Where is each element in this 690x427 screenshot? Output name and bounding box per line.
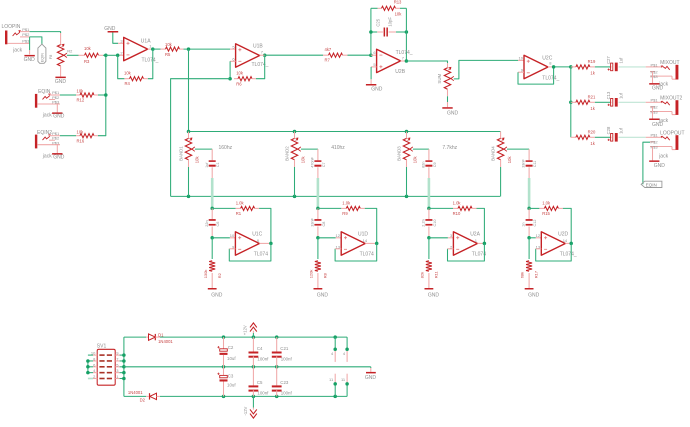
svg-text:GND: GND xyxy=(652,122,664,128)
svg-text:C13: C13 xyxy=(606,91,611,99)
svg-text:GND: GND xyxy=(53,114,65,120)
ground GND band1 gyrator xyxy=(208,288,223,298)
wire R1 to op-amp output xyxy=(259,208,271,243)
svg-text:TL074: TL074 xyxy=(254,252,268,258)
wire C27 to MIXOUT jack xyxy=(619,66,646,68)
resistor R3 10k xyxy=(79,46,104,64)
wire branch to R21 xyxy=(571,101,576,103)
wire MIXOUT P$2 to GND xyxy=(652,72,654,84)
svg-text:GND: GND xyxy=(317,292,329,298)
wire U2A feedback to pin - xyxy=(448,243,485,261)
op-amp U2D TL074_ xyxy=(536,232,577,258)
svg-text:R6: R6 xyxy=(236,81,242,86)
svg-text:D2: D2 xyxy=(140,397,146,402)
diode D1 1N4001 xyxy=(146,333,173,344)
wire R21 to C13 xyxy=(595,101,610,103)
wire node B down to R17 xyxy=(528,238,530,259)
capacitor C11 33nF series xyxy=(522,158,537,167)
svg-text:10: 10 xyxy=(519,55,524,60)
svg-text:14: 14 xyxy=(563,238,568,243)
wire node down to top band bus xyxy=(188,49,190,131)
power pin V- U1 pin11 xyxy=(329,374,335,397)
capacitor C4 100nf xyxy=(249,337,270,367)
wire MIXOUT2 P$2 to GND xyxy=(652,107,654,119)
svg-text:100nf: 100nf xyxy=(257,390,269,395)
op-amp U1C TL074 xyxy=(230,232,268,258)
svg-text:C2: C2 xyxy=(228,345,234,350)
svg-text:410hz: 410hz xyxy=(331,145,345,151)
capacitor C21 100nf xyxy=(272,337,293,367)
svg-text:BAND2: BAND2 xyxy=(285,146,290,161)
junction U1D output xyxy=(375,242,379,246)
junction node B band3 xyxy=(427,236,431,240)
svg-text:-12V: -12V xyxy=(243,406,248,415)
wire C9 down to gyrator node A xyxy=(428,167,430,178)
wire R20 to C28 xyxy=(595,136,610,138)
svg-text:130k: 130k xyxy=(203,270,208,279)
svg-text:LOOPOUT: LOOPOUT xyxy=(660,130,684,136)
ground GND under SUM pot xyxy=(442,107,458,116)
svg-text:GND: GND xyxy=(447,110,459,116)
wire LOOPOUT P$2 to EQIN flag xyxy=(643,142,650,184)
connector MIXOUT2 jack xyxy=(646,95,683,124)
wire U1A feedback loop xyxy=(118,55,125,78)
svg-text:4k7: 4k7 xyxy=(325,47,332,52)
potentiometer BAND4 10k xyxy=(491,132,512,168)
resistor R7 4k7 xyxy=(323,47,348,63)
junction U1C output xyxy=(269,242,273,246)
wire R12 to input node xyxy=(98,94,106,96)
supply +12V arrow xyxy=(242,323,256,337)
connector SV1 header xyxy=(91,344,120,386)
ground GND under EQIN2 jack xyxy=(52,153,65,160)
svg-text:jack: jack xyxy=(12,47,22,53)
svg-text:1.0k: 1.0k xyxy=(342,201,351,206)
junction SV1 right bus xyxy=(122,353,126,357)
power pin V+ U2 pin4 xyxy=(343,349,347,362)
wire C11 down to gyrator node A xyxy=(528,167,530,178)
svg-text:GND: GND xyxy=(428,292,440,298)
resistor R11 82k to ground xyxy=(420,261,439,288)
resistor R8 120k to ground xyxy=(309,261,328,288)
junction U1A feedback nodes xyxy=(116,54,120,58)
capacitor C23 100nf xyxy=(272,367,293,397)
junction node A band4 xyxy=(527,207,531,211)
svg-text:R4: R4 xyxy=(125,81,131,86)
wire R10 to op-amp output xyxy=(477,208,485,243)
svg-text:10k: 10k xyxy=(124,71,132,76)
svg-text:160hz: 160hz xyxy=(219,145,233,151)
svg-text:1N4001: 1N4001 xyxy=(128,390,143,395)
ground GND under pot R2 xyxy=(55,77,67,85)
connector LOOPOUT jack xyxy=(646,130,685,159)
wire BAND4 bottom to bus xyxy=(500,167,502,196)
svg-text:10k: 10k xyxy=(165,42,173,47)
svg-text:U1C: U1C xyxy=(252,232,262,238)
svg-text:U1D: U1D xyxy=(358,232,368,238)
svg-text:GND: GND xyxy=(24,57,35,63)
op-amp U2B TL074 (inverting top) xyxy=(373,49,412,75)
svg-text:10k: 10k xyxy=(301,156,306,164)
capacitor C8 33nF gyrator xyxy=(311,208,326,237)
ground GND under LOOPIN jack xyxy=(24,55,35,63)
capacitor C28 1uf polarized xyxy=(606,126,624,142)
junction U2C output nodes xyxy=(552,65,556,69)
wire U1B pin6 stub xyxy=(230,60,236,62)
wire branch to R19 xyxy=(571,66,576,68)
wire node B to op-amp + input xyxy=(212,237,230,239)
svg-text:10k: 10k xyxy=(84,46,92,51)
svg-text:P$1: P$1 xyxy=(650,62,658,67)
svg-text:1.0k: 1.0k xyxy=(453,201,462,206)
wire node B to op-amp + input xyxy=(429,237,448,239)
svg-text:14: 14 xyxy=(363,238,368,243)
resistor R10 1.0k gyrator xyxy=(429,201,477,217)
ground GND under U2B xyxy=(366,84,383,92)
svg-text:R12: R12 xyxy=(77,98,85,103)
wire input node to U1A pin2 xyxy=(106,54,118,56)
svg-text:TL074_: TL074_ xyxy=(142,58,159,64)
resistor R15 1.0k gyrator xyxy=(529,201,563,217)
wire R9 to op-amp output xyxy=(365,208,377,243)
wire U2C output xyxy=(548,66,554,68)
svg-text:R9: R9 xyxy=(342,211,348,216)
wire GND mid rail xyxy=(124,366,371,368)
junction node B band2 xyxy=(316,236,320,240)
svg-text:U2B: U2B xyxy=(395,69,405,75)
resistor R4 10k feedback U1A xyxy=(124,71,148,87)
svg-text:U2C: U2C xyxy=(542,56,552,62)
svg-text:100nf: 100nf xyxy=(257,357,269,362)
junction input node at U1A xyxy=(104,54,108,58)
svg-text:C5: C5 xyxy=(257,380,263,385)
wire R15 to op-amp output xyxy=(563,208,571,243)
ground GND under MIXOUT2 xyxy=(649,119,663,128)
wire U2B feedback right leg xyxy=(405,8,407,32)
svg-text:C10: C10 xyxy=(433,220,437,227)
wire EQIN P$1 to R12 xyxy=(60,94,76,96)
wire LOOPOUT P$3 to GND xyxy=(652,147,654,161)
svg-text:2.2n: 2.2n xyxy=(422,219,426,226)
capacitor C1 1uf series xyxy=(205,160,220,168)
wire U2B output xyxy=(401,60,407,62)
wire node B down to R8 xyxy=(317,238,319,259)
svg-text:P$1: P$1 xyxy=(650,98,658,103)
resistor R5 10k xyxy=(161,42,184,57)
capacitor C13 1uf polarized xyxy=(606,91,624,107)
wire BAND1 wiper to C1 xyxy=(195,148,212,150)
svg-text:C25: C25 xyxy=(376,18,381,26)
wire EQIN P$2 to GND xyxy=(56,104,58,113)
svg-text:82n: 82n xyxy=(422,161,426,167)
ground GND power rail xyxy=(365,372,377,381)
wire BAND2 wiper to C7 xyxy=(301,148,318,150)
svg-text:R19: R19 xyxy=(588,59,596,64)
resistor R1 1.0k gyrator xyxy=(212,201,259,217)
svg-text:R1: R1 xyxy=(236,211,242,216)
svg-text:jack: jack xyxy=(42,153,52,159)
svg-text:TL074_: TL074_ xyxy=(542,76,559,82)
op-amp U1A TL074 xyxy=(120,37,158,63)
svg-text:470nF: 470nF xyxy=(311,156,315,167)
wire LOOPIN P$2 to GND xyxy=(29,37,31,50)
potentiometer BAND2 10k xyxy=(285,132,306,168)
svg-text:1uf: 1uf xyxy=(619,92,624,99)
ground GND band4 gyrator xyxy=(525,288,540,298)
svg-text:C12: C12 xyxy=(533,220,537,227)
svg-text:10k: 10k xyxy=(195,156,200,164)
svg-text:P$3: P$3 xyxy=(650,144,658,149)
wire pot R2 wiper to R3 xyxy=(67,54,79,56)
resistor R19 1k xyxy=(576,59,596,75)
wire node B down to R2 xyxy=(211,238,213,259)
junction C25 corners xyxy=(369,30,373,34)
svg-text:EQIN: EQIN xyxy=(646,183,657,188)
svg-text:jack: jack xyxy=(42,113,52,119)
resistor R6 10k feedback U1B xyxy=(234,70,256,86)
svg-text:C7: C7 xyxy=(322,162,326,167)
capacitor C6 22n gyrator xyxy=(205,208,220,237)
capacitor C3 10uf xyxy=(217,367,236,397)
svg-text:+12V: +12V xyxy=(242,325,247,335)
wire U1D output xyxy=(365,242,377,244)
svg-text:R21: R21 xyxy=(588,95,596,100)
resistor R9 1.0k gyrator xyxy=(318,201,365,217)
resistor R17 68k to ground xyxy=(520,261,539,288)
svg-text:C9: C9 xyxy=(433,162,437,167)
svg-text:10k: 10k xyxy=(507,156,512,164)
wire R7 to U2B pin6 xyxy=(348,54,371,56)
svg-text:33nF: 33nF xyxy=(311,217,315,226)
wire U2D output xyxy=(565,242,571,244)
junction node B band1 xyxy=(210,236,214,240)
diode D2 1N4001 xyxy=(128,390,160,402)
junction U1B inverting loop xyxy=(228,77,232,81)
wire U1C output xyxy=(259,242,271,244)
svg-text:GND: GND xyxy=(528,292,540,298)
svg-text:BAND4: BAND4 xyxy=(491,146,496,161)
svg-text:1.0k: 1.0k xyxy=(542,201,551,206)
svg-text:F8: F8 xyxy=(48,54,53,59)
wire band bus bottom (inverting) xyxy=(171,195,501,197)
wire bottom bus corner to BAND4 pot bottom xyxy=(499,195,501,197)
wire BAND1 bottom to bus xyxy=(188,167,190,196)
svg-text:TL074: TL074 xyxy=(360,252,374,258)
svg-text:C27: C27 xyxy=(606,56,611,64)
capacitor C7 470nF series xyxy=(311,156,326,167)
wire U1D feedback to pin - xyxy=(335,243,377,261)
svg-text:R20: R20 xyxy=(588,130,596,135)
svg-text:C21: C21 xyxy=(280,346,289,351)
wire LOOPIN P$1 to input pot xyxy=(30,32,61,33)
svg-text:C6: C6 xyxy=(216,222,220,227)
svg-text:12: 12 xyxy=(536,233,541,238)
wire U1B output xyxy=(260,54,265,56)
svg-text:U1A: U1A xyxy=(141,38,151,44)
svg-text:R15: R15 xyxy=(542,211,550,216)
wire R19 to C27 xyxy=(595,66,610,68)
wire R16 to input node vertical xyxy=(98,55,106,135)
svg-text:GND: GND xyxy=(211,292,223,298)
junction power rails xyxy=(222,335,226,339)
capacitor C27 1uf polarized xyxy=(606,56,624,72)
wire U1A out to R5 xyxy=(153,48,161,50)
svg-text:GND: GND xyxy=(654,163,666,169)
wire U2B pin5 to GND xyxy=(371,66,377,68)
svg-text:22n: 22n xyxy=(205,220,209,226)
junction node to band bus top xyxy=(187,47,191,51)
connector LOOPIN jack xyxy=(2,24,31,53)
junction node A band1 xyxy=(210,207,214,211)
svg-text:1uf: 1uf xyxy=(619,57,624,64)
svg-text:10uf: 10uf xyxy=(227,383,236,388)
resistor R21 1k xyxy=(576,95,596,112)
ground GND band3 gyrator xyxy=(425,288,440,298)
potentiometer BAND3 10k xyxy=(397,132,418,168)
svg-text:LOOPIN: LOOPIN xyxy=(2,24,21,30)
connector EQIN jack xyxy=(35,89,60,118)
junction U2A output xyxy=(483,242,487,246)
wire SV1 left pins tie xyxy=(88,354,93,356)
ground GND under MIXOUT xyxy=(649,83,663,91)
wire R3 to U1A inverting node xyxy=(103,54,106,56)
junction node A band3 xyxy=(427,207,431,211)
svg-text:GND: GND xyxy=(652,85,664,91)
junction U2B inverting input xyxy=(369,53,373,57)
svg-text:7.7khz: 7.7khz xyxy=(442,145,457,151)
svg-text:1N4001: 1N4001 xyxy=(158,339,173,344)
wire R5 to U1B pin5 xyxy=(184,48,231,50)
svg-text:10k: 10k xyxy=(413,156,418,164)
wire output branch vertical xyxy=(570,67,572,137)
svg-text:P$3: P$3 xyxy=(650,74,658,79)
svg-text:33nF: 33nF xyxy=(522,158,526,167)
svg-text:SUM: SUM xyxy=(437,74,442,84)
ground GND band2 gyrator xyxy=(314,288,329,298)
potentiometer SUM xyxy=(437,63,454,96)
svg-text:10k: 10k xyxy=(236,70,244,75)
svg-text:68k: 68k xyxy=(520,272,525,278)
svg-text:100nf: 100nf xyxy=(281,357,293,362)
svg-text:GND: GND xyxy=(371,86,383,92)
svg-text:D1: D1 xyxy=(158,333,164,338)
wire LOOPIN P$2 to EQIN flag xyxy=(30,37,42,44)
wire R6 to U1B output xyxy=(256,55,265,78)
svg-text:R5: R5 xyxy=(165,52,171,57)
potentiometer R2 input level pot xyxy=(57,33,73,77)
resistor R16 10k xyxy=(76,129,98,143)
potentiometer BAND1 10k xyxy=(179,132,200,168)
svg-text:R10: R10 xyxy=(453,211,461,216)
wire U2B output to SUM pot xyxy=(406,61,447,63)
wire node B down to R11 xyxy=(428,238,430,259)
wire -12V rail xyxy=(124,395,146,397)
svg-text:SV1: SV1 xyxy=(97,344,107,350)
junction bottom bus taps xyxy=(187,195,191,199)
resistor R2 130k to ground xyxy=(203,261,222,288)
net flag EQIN (vertical tag F8) xyxy=(38,44,53,63)
svg-text:BAND1: BAND1 xyxy=(179,146,184,161)
junction node B band4 xyxy=(527,236,531,240)
svg-text:R2: R2 xyxy=(67,49,73,54)
wire U2B input leg up to feedback xyxy=(370,32,372,55)
svg-text:120k: 120k xyxy=(309,270,314,279)
svg-text:GND: GND xyxy=(55,79,67,85)
wire U2D feedback to pin - xyxy=(536,243,572,261)
svg-text:R3: R3 xyxy=(84,59,90,64)
svg-text:GND: GND xyxy=(53,154,65,160)
svg-text:82k: 82k xyxy=(420,272,425,278)
svg-text:GND: GND xyxy=(365,375,377,381)
svg-text:C8: C8 xyxy=(322,222,326,227)
wire EQIN2 P$2 to GND xyxy=(56,144,58,153)
wire branch to R20 xyxy=(571,136,576,138)
svg-text:10k: 10k xyxy=(395,11,403,16)
junction node A band2 xyxy=(316,207,320,211)
supply -12V arrow xyxy=(243,396,257,418)
svg-text:TL074_: TL074_ xyxy=(560,252,577,258)
junction top bus taps xyxy=(187,130,191,134)
svg-text:P$1: P$1 xyxy=(22,27,30,32)
svg-text:EQIN: EQIN xyxy=(40,53,44,63)
wire +12V rail xyxy=(124,336,146,338)
svg-text:TL074_: TL074_ xyxy=(396,50,413,56)
svg-text:C1: C1 xyxy=(216,162,220,167)
svg-text:P$3: P$3 xyxy=(22,39,30,44)
wire band bottom bus riser to U1B pin6 xyxy=(171,79,231,197)
net flag EQIN (right) xyxy=(641,181,662,187)
svg-text:TL074_: TL074_ xyxy=(252,62,269,68)
wire C28 to LOOPOUT jack xyxy=(619,136,646,138)
junction power pins top xyxy=(333,347,337,351)
svg-text:C11: C11 xyxy=(533,161,537,168)
junction U2D output xyxy=(569,242,573,246)
svg-text:R8: R8 xyxy=(323,272,328,278)
wire C1 down to gyrator node A xyxy=(211,167,213,178)
svg-text:12: 12 xyxy=(336,233,341,238)
wire node B to op-amp + input xyxy=(318,237,336,239)
ground GND under LOOPOUT xyxy=(649,160,665,169)
capacitor C9 82n series xyxy=(422,160,437,168)
op-amp U2C TL074 xyxy=(519,55,560,81)
power pin V- U2 pin11 xyxy=(341,374,347,384)
capacitor C2 10uf xyxy=(217,337,236,367)
junction SV1 left ties xyxy=(86,359,90,363)
svg-text:C23: C23 xyxy=(280,380,289,385)
svg-text:R17: R17 xyxy=(534,270,539,278)
wire band bus top (non-inverting) xyxy=(189,131,501,133)
op-amp U2A TL074 xyxy=(450,232,486,258)
resistor R13 10k feedback U2B xyxy=(371,0,407,16)
svg-text:100nf: 100nf xyxy=(281,390,293,395)
wire BAND2 bottom to bus xyxy=(294,167,296,196)
wire BAND3 wiper to C9 xyxy=(413,148,429,150)
capacitor C25 10pF xyxy=(371,17,407,37)
resistor R20 1k xyxy=(576,130,596,147)
svg-text:1.0k: 1.0k xyxy=(236,201,245,206)
svg-text:U2D: U2D xyxy=(558,232,568,238)
svg-text:jack: jack xyxy=(658,154,668,160)
wire U1C feedback to pin - xyxy=(229,243,271,261)
svg-text:10k: 10k xyxy=(77,129,85,134)
connector EQIN2 jack xyxy=(35,130,60,159)
svg-text:R16: R16 xyxy=(77,138,85,143)
wire BAND4 wiper to C11 xyxy=(507,148,529,150)
svg-text:10uf: 10uf xyxy=(227,356,236,361)
svg-text:10: 10 xyxy=(230,233,235,238)
svg-text:U1B: U1B xyxy=(253,44,263,50)
svg-text:BAND3: BAND3 xyxy=(397,146,402,161)
